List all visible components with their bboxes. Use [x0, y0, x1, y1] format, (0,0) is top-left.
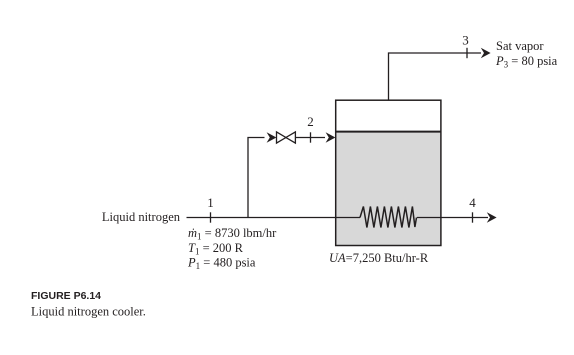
svg-text:FIGURE P6.14: FIGURE P6.14: [31, 290, 101, 302]
svg-text:2: 2: [307, 114, 314, 129]
svg-text:Sat vapor: Sat vapor: [496, 39, 544, 53]
liquid level line: [336, 131, 441, 133]
valve V1 (expansion valve bowtie): [277, 132, 286, 143]
svg-text:3: 3: [462, 33, 469, 48]
svg-text:P1 = 480 psia: P1 = 480 psia: [187, 256, 256, 272]
svg-text:P3 = 80 psia: P3 = 80 psia: [495, 54, 558, 70]
wire: valve to vessel (stream 2): [296, 137, 326, 139]
svg-text:Liquid nitrogen cooler.: Liquid nitrogen cooler.: [31, 305, 146, 319]
svg-text:4: 4: [469, 195, 476, 210]
tick node 1: [210, 212, 212, 222]
tick node 3: [466, 48, 468, 58]
coil (heat exchanger coil inside vessel): [360, 207, 417, 228]
arrowhead stream 3: [481, 48, 491, 58]
svg-text:T1 = 200 R: T1 = 200 R: [188, 241, 244, 257]
arrowhead before valve: [267, 132, 277, 142]
wire: branch riser from feed line up to valve: [248, 138, 265, 218]
svg-text:UA=7,250 Btu/hr-R: UA=7,250 Btu/hr-R: [329, 251, 429, 265]
svg-text:ṁ1 = 8730 lbm/hr: ṁ1 = 8730 lbm/hr: [188, 226, 277, 242]
wire: liquid nitrogen feed line into vessel: [187, 217, 361, 219]
tick node 2: [310, 132, 312, 142]
tick node 4: [472, 212, 474, 222]
arrowhead stream 4: [487, 212, 497, 222]
arrowhead into vessel (stream 2): [326, 132, 336, 142]
wire: coil outlet line to stream 4: [417, 217, 488, 219]
svg-text:1: 1: [207, 195, 214, 210]
liquid region (gray fill of vessel): [336, 132, 440, 245]
svg-text:Liquid nitrogen: Liquid nitrogen: [102, 210, 181, 224]
wire: vapor outlet riser and line (stream 3): [389, 53, 482, 100]
vessel U1 (nitrogen cooler tank): [336, 100, 441, 245]
